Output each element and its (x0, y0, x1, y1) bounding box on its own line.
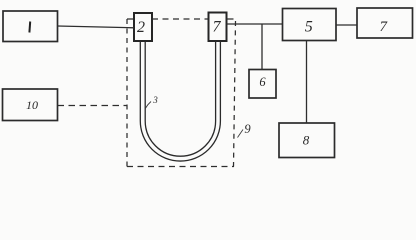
svg-text:6: 6 (259, 75, 266, 89)
svg-text:7: 7 (213, 19, 222, 36)
svg-text:7: 7 (380, 19, 389, 35)
svg-text:2: 2 (137, 19, 145, 36)
svg-text:8: 8 (303, 133, 310, 148)
svg-text:9: 9 (244, 122, 251, 136)
svg-text:5: 5 (305, 19, 313, 36)
svg-text:10: 10 (26, 98, 38, 112)
svg-text:3: 3 (152, 95, 158, 105)
